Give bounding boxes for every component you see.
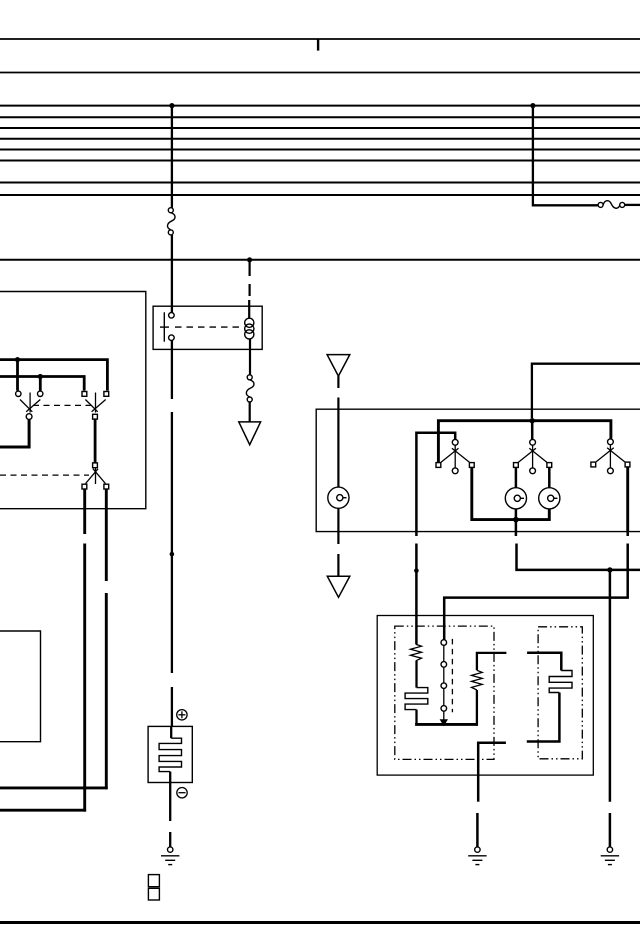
lamp L0 (left bulb) xyxy=(328,487,349,508)
node: tick on top harness line xyxy=(317,39,319,51)
relay coil xyxy=(245,318,254,339)
ground G3 xyxy=(601,847,619,865)
wire: bus line 4 xyxy=(0,138,640,140)
wire: switch B output xyxy=(94,419,97,463)
terminals of switch A xyxy=(16,391,43,396)
connector arrow T3 (down triangle) xyxy=(239,422,261,445)
small box lower-left xyxy=(0,631,41,742)
wire: SW3 output to distributor (with gap) xyxy=(444,532,628,640)
terminals of switch B xyxy=(82,392,109,397)
wire: left feed drop to fuse xyxy=(171,106,173,208)
wire: distributor feed branch xyxy=(416,433,455,532)
wire: fuse to relay terminal xyxy=(171,235,173,313)
wire: thick bus in lamp box xyxy=(438,421,611,463)
wire: SW3 right contact down xyxy=(626,467,629,532)
node: splice dot xyxy=(414,568,419,573)
wire: top harness line xyxy=(0,38,640,40)
wire: dashed coil feed xyxy=(248,262,251,319)
connector arrow T1 xyxy=(327,355,350,377)
wire: bus line 7 xyxy=(0,182,640,184)
lamp L2 xyxy=(539,467,560,509)
wire: bus line 5 xyxy=(0,149,640,151)
wire: switch A output xyxy=(0,420,29,448)
fuse F1 (vertical) xyxy=(167,208,175,235)
relay contact bar xyxy=(160,312,169,341)
ground G1 xyxy=(161,847,179,865)
node: junction dot xyxy=(607,567,612,572)
wire: distributor feed (with gap) xyxy=(415,532,418,645)
left shield box (dash-dot) xyxy=(395,626,494,759)
lamp L1 xyxy=(505,467,526,509)
wire: arrow to lamp (with gap) xyxy=(337,376,339,487)
switch SW2 xyxy=(514,439,552,473)
link (dashed) switch A-B xyxy=(33,404,92,406)
wire: right feed drop xyxy=(533,106,598,206)
node: junction dot xyxy=(513,517,519,523)
wire: bus line 6 xyxy=(0,160,640,162)
switch C xyxy=(86,468,106,484)
wire: relay contact to battery (long, with gaps) xyxy=(171,341,173,727)
ground G2 xyxy=(468,847,486,865)
connector blocks xyxy=(148,875,159,900)
link (dashed) switch C xyxy=(0,474,89,476)
resistor R2 xyxy=(472,670,483,690)
switch SW3 xyxy=(591,439,630,474)
wire: lamp L1 down through box xyxy=(515,509,518,532)
node: splice dot xyxy=(170,552,175,557)
switch B pivot xyxy=(93,414,98,419)
terminal of switch C xyxy=(93,463,98,468)
wire: middle switch feed xyxy=(531,421,534,439)
wire: R1 to capacitor xyxy=(415,661,417,688)
resistor R1 xyxy=(411,644,422,661)
bottom border xyxy=(0,921,640,924)
wire: output right (long, with gap) xyxy=(0,489,108,789)
wire: thick feed 2 xyxy=(0,377,84,391)
wire: coil exit xyxy=(249,339,251,375)
wire: fuse to right edge xyxy=(625,204,640,206)
wire: ground branch (with gap) xyxy=(476,775,479,847)
contact chain xyxy=(441,640,447,721)
wire: bus line 1 xyxy=(0,105,640,107)
switch A pivot xyxy=(26,414,32,420)
capacitor C1 plates xyxy=(405,688,428,710)
wire: internal bus xyxy=(415,723,477,726)
wire: thick feed 1 xyxy=(0,360,107,391)
capacitor C2 plates xyxy=(549,671,572,693)
distributor outer box xyxy=(377,616,593,776)
fuse F2 (horizontal) xyxy=(598,201,625,209)
wire: output left (long, with gap) xyxy=(0,489,86,812)
wire: SW1 right contact to lamps xyxy=(472,467,550,519)
resistor R2 stub xyxy=(477,653,507,670)
left box xyxy=(0,292,146,509)
node: junction dot for relay coil feed xyxy=(247,257,252,262)
wire: fuse to arrow xyxy=(249,402,251,422)
node: junction dot xyxy=(15,357,20,362)
wire: ground branch right (with gap) xyxy=(609,570,612,847)
wire: C1 to bus xyxy=(415,710,417,725)
wire: lamp L1 output to right edge (with gap) xyxy=(516,532,640,570)
node: junction dot xyxy=(38,374,43,379)
wire: lamp to lower arrow (dashed) xyxy=(337,508,339,576)
capacitor C2 top stub xyxy=(527,653,561,671)
rotor link (dashed) xyxy=(451,639,453,712)
switch B xyxy=(85,393,105,413)
wire: drop to terminal xyxy=(16,360,19,391)
battery minus symbol xyxy=(177,788,187,798)
battery plus symbol xyxy=(177,710,187,720)
wire: second harness line xyxy=(0,72,640,74)
wire: full-width bus at y=260 xyxy=(0,259,640,261)
wire: R2 to bus xyxy=(476,690,478,726)
wire: right feed into box xyxy=(532,364,640,418)
connector arrow T2 xyxy=(327,576,350,597)
wire: battery to ground (with gap) xyxy=(169,783,171,848)
switch SW1 xyxy=(436,439,474,473)
battery box xyxy=(148,726,192,782)
fuse F3 (vertical, below relay) xyxy=(246,375,254,402)
wire: bus line 3 xyxy=(0,127,640,129)
terminals below switch C xyxy=(82,484,109,489)
relay contact terminals xyxy=(169,313,175,341)
relay link (dashed) xyxy=(175,326,241,328)
node: arrow junction on bus xyxy=(440,719,448,726)
capacitor C2 bottom stub xyxy=(527,693,560,742)
node: junction dot left feed xyxy=(169,103,174,108)
node: junction dot on bus xyxy=(530,418,535,423)
node: junction dot right feed xyxy=(530,103,535,108)
wire: bus line 2 xyxy=(0,116,640,118)
right shield box (dash-dot) xyxy=(538,627,582,759)
wire: ground stub xyxy=(478,743,506,775)
battery plates xyxy=(159,726,181,782)
lamp box xyxy=(316,409,640,531)
wire: bus line 8 xyxy=(0,194,640,196)
switch A xyxy=(20,393,40,413)
relay box xyxy=(153,306,262,349)
wire: drop to terminal xyxy=(39,377,42,391)
